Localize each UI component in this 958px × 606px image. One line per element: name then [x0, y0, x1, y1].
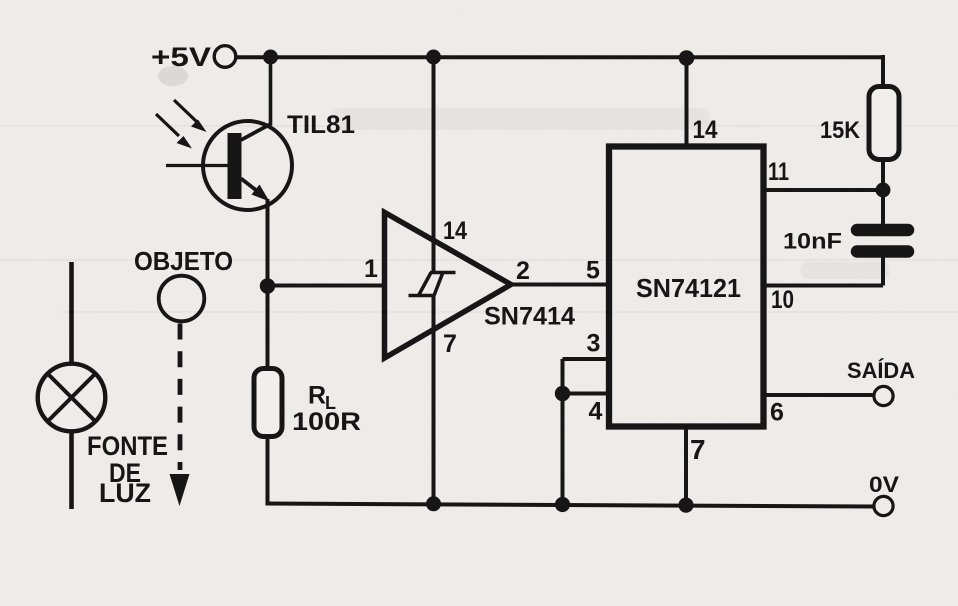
node bottom rail / 74121 pin7 junction	[678, 498, 693, 513]
capacitor C1 10nF plate 1	[857, 224, 908, 237]
svg-text:7: 7	[443, 330, 457, 358]
svg-text:100R: 100R	[292, 408, 361, 436]
wire top-right corner down to 15K	[881, 55, 885, 87]
svg-text:10nF: 10nF	[783, 229, 842, 254]
svg-text:6: 6	[770, 399, 784, 427]
resistor R1 15K	[869, 87, 899, 160]
svg-text:15K: 15K	[820, 117, 861, 144]
svg-text:5: 5	[586, 257, 600, 285]
svg-text:SAÍDA: SAÍDA	[847, 358, 915, 383]
object OBJETO circle	[159, 276, 205, 322]
object arrowhead	[170, 474, 190, 506]
wire node to 7414 pin 1	[268, 284, 386, 288]
svg-text:3: 3	[587, 330, 601, 358]
+5V supply terminal	[214, 46, 236, 68]
node top rail / 74121 pin14 junction	[679, 50, 695, 66]
wire 74121 pin6 to SAIDA	[763, 393, 874, 397]
wire 15K bottom to node	[881, 159, 885, 225]
wire pins3-4 down to rail	[561, 359, 565, 505]
resistor RL 100R	[254, 369, 282, 437]
smudge artifact	[158, 66, 188, 86]
wire emitter down to node	[266, 199, 270, 369]
light arrow 1	[174, 100, 197, 122]
svg-text:SN7414: SN7414	[484, 303, 575, 331]
svg-text:2: 2	[516, 257, 530, 285]
wire collector to top rail	[269, 57, 273, 125]
wire 7414 pin2 to 74121 pin5	[511, 283, 609, 287]
IC U2 SN74121 body	[609, 147, 764, 427]
svg-text:OBJETO: OBJETO	[134, 246, 233, 276]
wire 74121 pin4 stub	[563, 392, 610, 396]
phototransistor Q1 TIL81 body	[203, 121, 292, 210]
node top rail / collector junction	[263, 50, 278, 65]
svg-text:LUZ: LUZ	[99, 478, 151, 508]
node R/C junction	[876, 183, 891, 198]
transistor Q1 emitter stroke with arrow	[241, 179, 261, 195]
svg-text:14: 14	[443, 217, 467, 245]
svg-text:11: 11	[768, 158, 789, 186]
wire 74121 pin11 to R/C node	[763, 188, 883, 192]
node top rail / 7414 pin14 junction	[426, 50, 441, 65]
node bottom rail / pins 3-4 junction	[555, 497, 570, 512]
transistor Q1 base bar	[228, 133, 242, 199]
node pin3/pin4 tie junction	[555, 386, 570, 401]
wire 74121 pin14	[685, 57, 689, 146]
transistor Q1 base lead	[166, 164, 229, 167]
wire 74121 pin10 to capacitor	[763, 256, 883, 286]
svg-text:1: 1	[364, 255, 378, 283]
lamp X stroke 1	[48, 374, 96, 422]
lamp X stroke 2	[48, 374, 96, 422]
wire 74121 pin3 stub	[563, 357, 610, 361]
svg-text:0V: 0V	[869, 472, 899, 497]
svg-text:14: 14	[693, 116, 718, 144]
lamp FONTE DE LUZ body	[38, 364, 106, 432]
wire bottom rail	[266, 504, 875, 507]
schmitt hysteresis symbol	[409, 273, 456, 296]
terminal 0V	[874, 496, 893, 515]
object dashed motion line	[178, 324, 183, 471]
svg-text:7: 7	[690, 434, 706, 465]
svg-text:4: 4	[589, 398, 603, 426]
svg-text:+5V: +5V	[151, 42, 211, 72]
terminal SAIDA	[874, 386, 893, 405]
light arrow 2	[156, 114, 179, 136]
node bottom rail / 7414 pin7 junction	[426, 496, 441, 511]
transistor Q1 collector stroke	[241, 124, 272, 141]
node pin1 junction	[260, 278, 275, 293]
svg-text:TIL81: TIL81	[287, 111, 355, 139]
lamp lead top	[69, 262, 74, 364]
svg-text:SN74121: SN74121	[636, 273, 741, 303]
capacitor C1 10nF plate 2	[857, 245, 908, 258]
wire +5V rail (top)	[236, 55, 884, 59]
svg-text:FONTE: FONTE	[87, 431, 168, 461]
wire RL bottom to ground rail	[266, 437, 270, 504]
lamp lead bottom	[69, 432, 74, 510]
wire 74121 pin7 to rail	[684, 427, 688, 505]
svg-text:10: 10	[771, 286, 794, 314]
op-amp U1 SN7414 schmitt inverter triangle	[385, 212, 512, 358]
svg-text:R: R	[308, 382, 326, 410]
wire 7414 power line through gate	[432, 57, 436, 504]
